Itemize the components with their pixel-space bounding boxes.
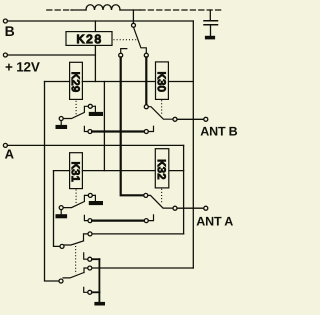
wire ground bus vertical: [98, 259, 100, 302]
pin K29 lower throw: [88, 130, 92, 134]
dotted actuator link K29: [75, 101, 77, 114]
wire ANT A: [177, 207, 204, 209]
svg-text:ANT B: ANT B: [200, 124, 237, 138]
contact pad stub K31 left: [60, 210, 62, 215]
node ANT B terminal: [204, 117, 208, 121]
contact pad stub K31 right: [94, 195, 96, 201]
wire coil row2: K31 right across to K32: [82, 170, 155, 172]
svg-text:K32: K32: [155, 159, 167, 180]
wire net A vertical right: [183, 145, 185, 234]
svg-text:K31: K31: [69, 162, 81, 183]
wire top node down to K28 common: [132, 10, 134, 23]
capacitor C1: [204, 21, 218, 25]
wire left vertical down to S4 pivot: [54, 171, 60, 247]
dotted link S4-S5: [75, 246, 77, 274]
switch arm K28: [134, 28, 147, 53]
pin K28 throw left: [119, 53, 123, 57]
contact pad K31 left: [56, 214, 68, 218]
contact pad stub K29 left: [60, 121, 62, 125]
wire ANT B: [177, 118, 204, 120]
contact hook K28 left: [121, 49, 127, 53]
wire S4 lower to ground bus: [92, 258, 100, 260]
relay coil K28: [66, 32, 112, 46]
wire stub to capacitor C1: [209, 10, 211, 21]
contact hook S4 lower: [84, 253, 88, 259]
wire net B vertical right: [192, 21, 194, 268]
wire coil row1: K30 right to net B vertical: [168, 81, 193, 83]
ground (top right): [205, 36, 215, 40]
switch arm K32: [148, 195, 173, 208]
svg-text:ANT A: ANT A: [196, 214, 233, 228]
node A terminal: [3, 143, 7, 147]
switch arm K30: [148, 107, 173, 120]
wire net B horizontal: [7, 20, 193, 22]
wire row link down (x104): [103, 82, 105, 171]
pin K29 pivot: [59, 117, 63, 121]
relay coil K32: [155, 149, 169, 188]
pin K28 common: [132, 23, 136, 27]
switch arm S4: [64, 241, 83, 245]
wire dashed top-right: [140, 9, 222, 11]
pin S5 contact (net B): [88, 266, 92, 270]
contact pad K29 right: [89, 112, 103, 116]
wire S5 lower to ground bus: [92, 291, 100, 293]
dotted actuator link K32: [161, 189, 163, 203]
pin K31 pivot: [59, 206, 63, 210]
svg-text:A: A: [5, 147, 15, 162]
switch S5 hook upper: [84, 268, 88, 273]
svg-text:K29: K29: [69, 72, 81, 93]
wire coil row2: K32 right to net A vertical: [169, 170, 184, 172]
wire capacitor to ground: [210, 25, 212, 36]
switch arm K29: [63, 106, 95, 118]
relay coil K31: [70, 153, 83, 189]
ground (bottom): [94, 302, 105, 306]
node ANT A terminal: [204, 206, 208, 210]
svg-text:K28: K28: [77, 32, 103, 46]
svg-text:+ 12V: + 12V: [5, 60, 40, 75]
pin S4 pivot: [60, 244, 64, 248]
wire net B to S5 contact: [92, 267, 194, 269]
contact hook K29 lower: [84, 126, 88, 131]
contact hook K31 lower: [84, 215, 88, 220]
wire K28 left throw down to K32 pivot: [121, 57, 144, 195]
pin K32 lower throw: [144, 219, 148, 223]
contact pad K31 right: [89, 201, 103, 205]
pin K28 throw right: [144, 53, 148, 57]
contact pad K29 left: [56, 125, 68, 129]
contact pad stub K29 right: [94, 106, 96, 112]
node B terminal: [3, 19, 7, 23]
dotted actuator link K31: [75, 190, 77, 204]
wire +12V rail: [7, 54, 95, 56]
wire net A horizontal: [7, 144, 183, 146]
wire left vertical down to S5 pivot: [45, 82, 59, 282]
switch arm S5: [63, 273, 84, 278]
wire dashed feed top-left: [47, 9, 72, 11]
pin K30 lower throw: [144, 130, 148, 134]
wire K31 lower to K32 lower: [92, 220, 144, 222]
inductor L1: [86, 5, 120, 10]
contact hook S5 lower: [84, 287, 88, 292]
pin K32 throw (ANT A): [173, 206, 177, 210]
pin K31 upper throw: [88, 193, 92, 197]
wire K29 lower to K30 lower: [92, 130, 144, 132]
contact hook K32 lower: [148, 215, 153, 221]
pin S5 lower throw: [88, 290, 92, 294]
node +12V terminal: [3, 53, 7, 57]
pin S5 pivot: [59, 279, 63, 283]
wire inductor to node: [120, 9, 140, 11]
wire K28 coil vertical: [94, 21, 96, 82]
wire K28 right throw down to K30 pivot: [145, 57, 147, 104]
dotted actuator link K28: [114, 39, 137, 41]
wire net A to S4 contact: [92, 233, 184, 235]
pin K31 lower throw: [88, 219, 92, 223]
wire coil row1: K29 right across to K30: [82, 81, 155, 83]
pin K30 throw (ANT B): [173, 117, 177, 121]
wire coil row1: K29 left to corner: [45, 81, 70, 83]
relay coil K29: [70, 62, 83, 99]
pin K32 pivot: [144, 193, 148, 197]
pin K29 upper throw: [88, 104, 92, 108]
wire solid lead-in to inductor: [71, 9, 86, 11]
wire coil row2: K31 left to corner: [54, 170, 70, 172]
pin S4 contact (net A): [88, 232, 92, 236]
switch S4 hook upper: [84, 234, 88, 241]
contact hook K30 lower: [148, 126, 153, 131]
svg-text:K30: K30: [155, 72, 167, 93]
dotted actuator link K30: [161, 100, 163, 114]
switch arm K31: [63, 195, 95, 207]
pin K30 pivot: [144, 105, 148, 109]
pin S4 lower throw: [88, 257, 92, 261]
svg-text:B: B: [5, 23, 15, 39]
relay coil K30: [156, 62, 169, 100]
